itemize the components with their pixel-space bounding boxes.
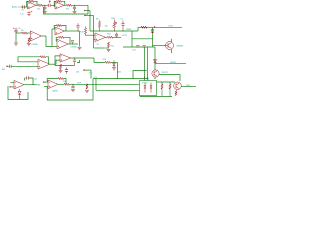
resistor R21 — [59, 64, 61, 69]
wire — [71, 57, 95, 59]
wire — [52, 28, 55, 30]
resistor R12 — [108, 36, 114, 38]
wire — [41, 35, 46, 37]
feedback resistor R1 — [29, 0, 34, 2]
svg-text:LM358: LM358 — [71, 47, 78, 49]
wire — [94, 58, 105, 62]
junction — [90, 15, 91, 16]
op-amp U7 — [60, 54, 71, 62]
wire — [72, 4, 88, 6]
capacitor C10 — [136, 45, 139, 47]
wire rail — [90, 30, 138, 32]
svg-text:VREF: VREF — [126, 29, 132, 31]
junction — [74, 5, 75, 6]
wire — [131, 31, 133, 47]
junction — [72, 84, 73, 85]
wire — [50, 63, 56, 65]
svg-text:LM358: LM358 — [32, 44, 39, 46]
resistor R4 — [67, 4, 72, 6]
op-amp U2B — [55, 27, 65, 35]
wire — [16, 32, 22, 34]
LED D3 — [144, 86, 146, 88]
op-amp U5 — [14, 80, 24, 89]
wire — [79, 31, 81, 47]
wire — [96, 89, 140, 91]
wire — [138, 26, 153, 28]
wire — [11, 82, 15, 84]
wire — [68, 43, 78, 45]
svg-text:Audio_In: Audio_In — [12, 6, 21, 9]
wire — [46, 57, 49, 64]
op-amp U1A — [28, 2, 37, 9]
capacitor C15 — [74, 58, 76, 60]
resistor R14 — [161, 84, 163, 89]
feedback resistor R20 — [40, 56, 45, 58]
box connector — [140, 81, 157, 96]
wire — [155, 63, 186, 65]
junction — [95, 78, 96, 79]
wire — [111, 61, 118, 63]
wire — [55, 56, 60, 66]
svg-text:R22: R22 — [103, 59, 106, 61]
wire — [36, 4, 38, 6]
wire — [44, 81, 48, 83]
transistor Q1 — [166, 42, 174, 50]
resistor R2 — [38, 4, 43, 6]
wire — [64, 4, 67, 6]
svg-text:DRIVE: DRIVE — [170, 62, 177, 64]
wire — [65, 30, 80, 32]
wire — [152, 27, 154, 47]
capacitor C13 — [25, 77, 27, 79]
resistor R16 — [175, 91, 177, 96]
transistor Q3 — [174, 82, 182, 90]
junction — [44, 5, 45, 6]
wire — [89, 11, 91, 32]
svg-text:1k: 1k — [97, 44, 99, 46]
resistor R13 — [141, 26, 147, 28]
junction — [86, 84, 87, 85]
wire — [47, 79, 58, 83]
wire — [51, 4, 56, 6]
wire loop — [8, 86, 28, 100]
diode D5 — [19, 89, 21, 91]
svg-text:2N3906: 2N3906 — [177, 45, 184, 47]
resistor R19 — [86, 84, 88, 89]
diode D6 — [113, 60, 115, 63]
wire — [34, 1, 37, 5]
wire — [62, 1, 65, 5]
wire — [58, 83, 64, 85]
ground — [59, 70, 63, 72]
wire — [93, 78, 148, 80]
wire — [169, 82, 171, 84]
wire — [70, 83, 89, 85]
junction — [17, 56, 19, 58]
wire — [27, 1, 29, 7]
wire — [154, 77, 156, 79]
ground — [43, 11, 47, 13]
op-amp U1B — [55, 2, 64, 9]
wire — [95, 79, 97, 91]
wire — [55, 65, 75, 67]
ground — [85, 90, 89, 92]
capacitor C11 — [143, 45, 146, 47]
wire — [159, 75, 180, 82]
wire — [132, 38, 153, 40]
resistor R18 — [64, 83, 70, 85]
wire bottom rail — [140, 96, 172, 98]
wire stub — [84, 69, 86, 71]
wire — [74, 9, 76, 11]
double vertical wires — [147, 47, 149, 81]
junction — [155, 62, 156, 65]
junction — [99, 31, 100, 32]
wire — [18, 56, 40, 58]
wire — [86, 34, 96, 35]
wire stub — [86, 10, 91, 12]
wire — [137, 27, 139, 31]
LED D4 — [150, 86, 152, 88]
junction — [74, 57, 75, 58]
op-amp U2A — [30, 31, 41, 41]
diode D2 — [154, 60, 157, 63]
resistor R22 — [105, 61, 111, 63]
capacitor C9 — [116, 36, 118, 37]
wire — [93, 16, 95, 49]
wire corner — [77, 60, 80, 63]
wire — [56, 37, 58, 41]
resistor R5 — [99, 20, 101, 21]
svg-text:OUT1: OUT1 — [122, 35, 128, 37]
wire — [15, 33, 17, 43]
wire — [44, 86, 48, 88]
wire — [133, 71, 147, 79]
wire — [29, 78, 33, 85]
wire — [29, 38, 30, 40]
wire — [154, 47, 156, 70]
junction — [116, 37, 117, 38]
resistor R6 — [22, 32, 28, 34]
svg-text:CTRL: CTRL — [168, 25, 173, 27]
feedback resistor R8 — [57, 24, 62, 26]
capacitor C3 — [44, 5, 46, 7]
wire loop — [47, 79, 93, 100]
wire — [64, 37, 70, 44]
wire — [157, 81, 176, 83]
capacitor C16 — [65, 70, 68, 72]
wire — [171, 39, 173, 42]
wire to net label — [153, 26, 183, 28]
wire feedback — [44, 7, 89, 14]
wire — [139, 96, 141, 97]
capacitor C4 — [74, 5, 76, 7]
svg-text:FBK: FBK — [37, 85, 42, 87]
wire — [117, 62, 119, 78]
pin ticks — [145, 77, 148, 79]
wire — [28, 32, 31, 34]
svg-text:10k: 10k — [76, 71, 79, 73]
resistor R15 — [169, 84, 171, 89]
feedback resistor R3 — [57, 0, 62, 2]
ground — [71, 89, 75, 91]
wire — [11, 65, 38, 67]
capacitor C5 — [122, 21, 124, 24]
wire — [106, 36, 108, 38]
wire — [54, 26, 56, 30]
wire — [87, 5, 89, 14]
svg-text:2N2222: 2N2222 — [162, 72, 168, 74]
wire — [11, 86, 15, 88]
wire — [51, 29, 53, 46]
capacitor C12 — [72, 84, 74, 86]
ground — [78, 48, 82, 50]
wire — [52, 45, 57, 47]
junction — [78, 31, 79, 32]
wire — [43, 4, 48, 6]
capacitor C6 polarized — [15, 28, 17, 30]
op-amp U3B — [95, 33, 106, 42]
wire — [88, 83, 140, 85]
wire — [171, 49, 173, 53]
wire — [8, 65, 9, 67]
resistor R10 — [85, 27, 87, 28]
wire — [90, 70, 92, 79]
wire — [60, 69, 62, 70]
wire — [24, 84, 37, 86]
wire — [123, 46, 155, 48]
op-amp U4 — [48, 80, 58, 89]
resistor R7 — [28, 38, 30, 43]
op-amp U3A — [57, 39, 68, 49]
wire stub — [86, 15, 94, 17]
input tick — [7, 65, 9, 67]
junction — [60, 65, 61, 66]
wire — [56, 60, 60, 64]
wire — [153, 45, 166, 47]
ground — [14, 43, 18, 45]
wire — [181, 86, 196, 88]
junction — [72, 44, 73, 45]
wire — [113, 36, 121, 38]
capacitor C14 — [10, 65, 12, 68]
wire — [46, 36, 52, 46]
capacitor C1 — [23, 5, 25, 8]
ground — [27, 44, 31, 46]
wire — [94, 39, 96, 41]
wire — [54, 1, 56, 7]
diode D1 — [151, 30, 154, 33]
ground — [107, 49, 111, 51]
svg-text:LM358: LM358 — [52, 91, 58, 93]
svg-text:R11: R11 — [111, 45, 114, 47]
wire — [44, 9, 46, 11]
trimmer RV1 — [114, 20, 116, 22]
op-amp U6 — [38, 59, 50, 69]
junction — [43, 5, 45, 7]
feedback resistor R9 — [59, 36, 64, 38]
svg-text:100k: 100k — [117, 72, 121, 74]
transistor Q2 — [152, 70, 159, 77]
power flag +9V — [49, 0, 51, 3]
feedback resistor R17 — [58, 77, 63, 79]
wire — [21, 6, 28, 8]
wire — [161, 82, 163, 84]
ground — [112, 68, 116, 70]
wire — [18, 57, 38, 62]
ground — [73, 11, 77, 13]
capacitor C7 — [77, 27, 79, 31]
wire — [64, 79, 67, 85]
capacitor C2 — [49, 4, 51, 7]
wire — [94, 47, 105, 49]
capacitor C8 — [72, 42, 74, 44]
wire — [24, 78, 26, 81]
wire — [62, 26, 67, 32]
resistor R11 — [107, 42, 109, 47]
svg-text:10k: 10k — [105, 26, 108, 28]
